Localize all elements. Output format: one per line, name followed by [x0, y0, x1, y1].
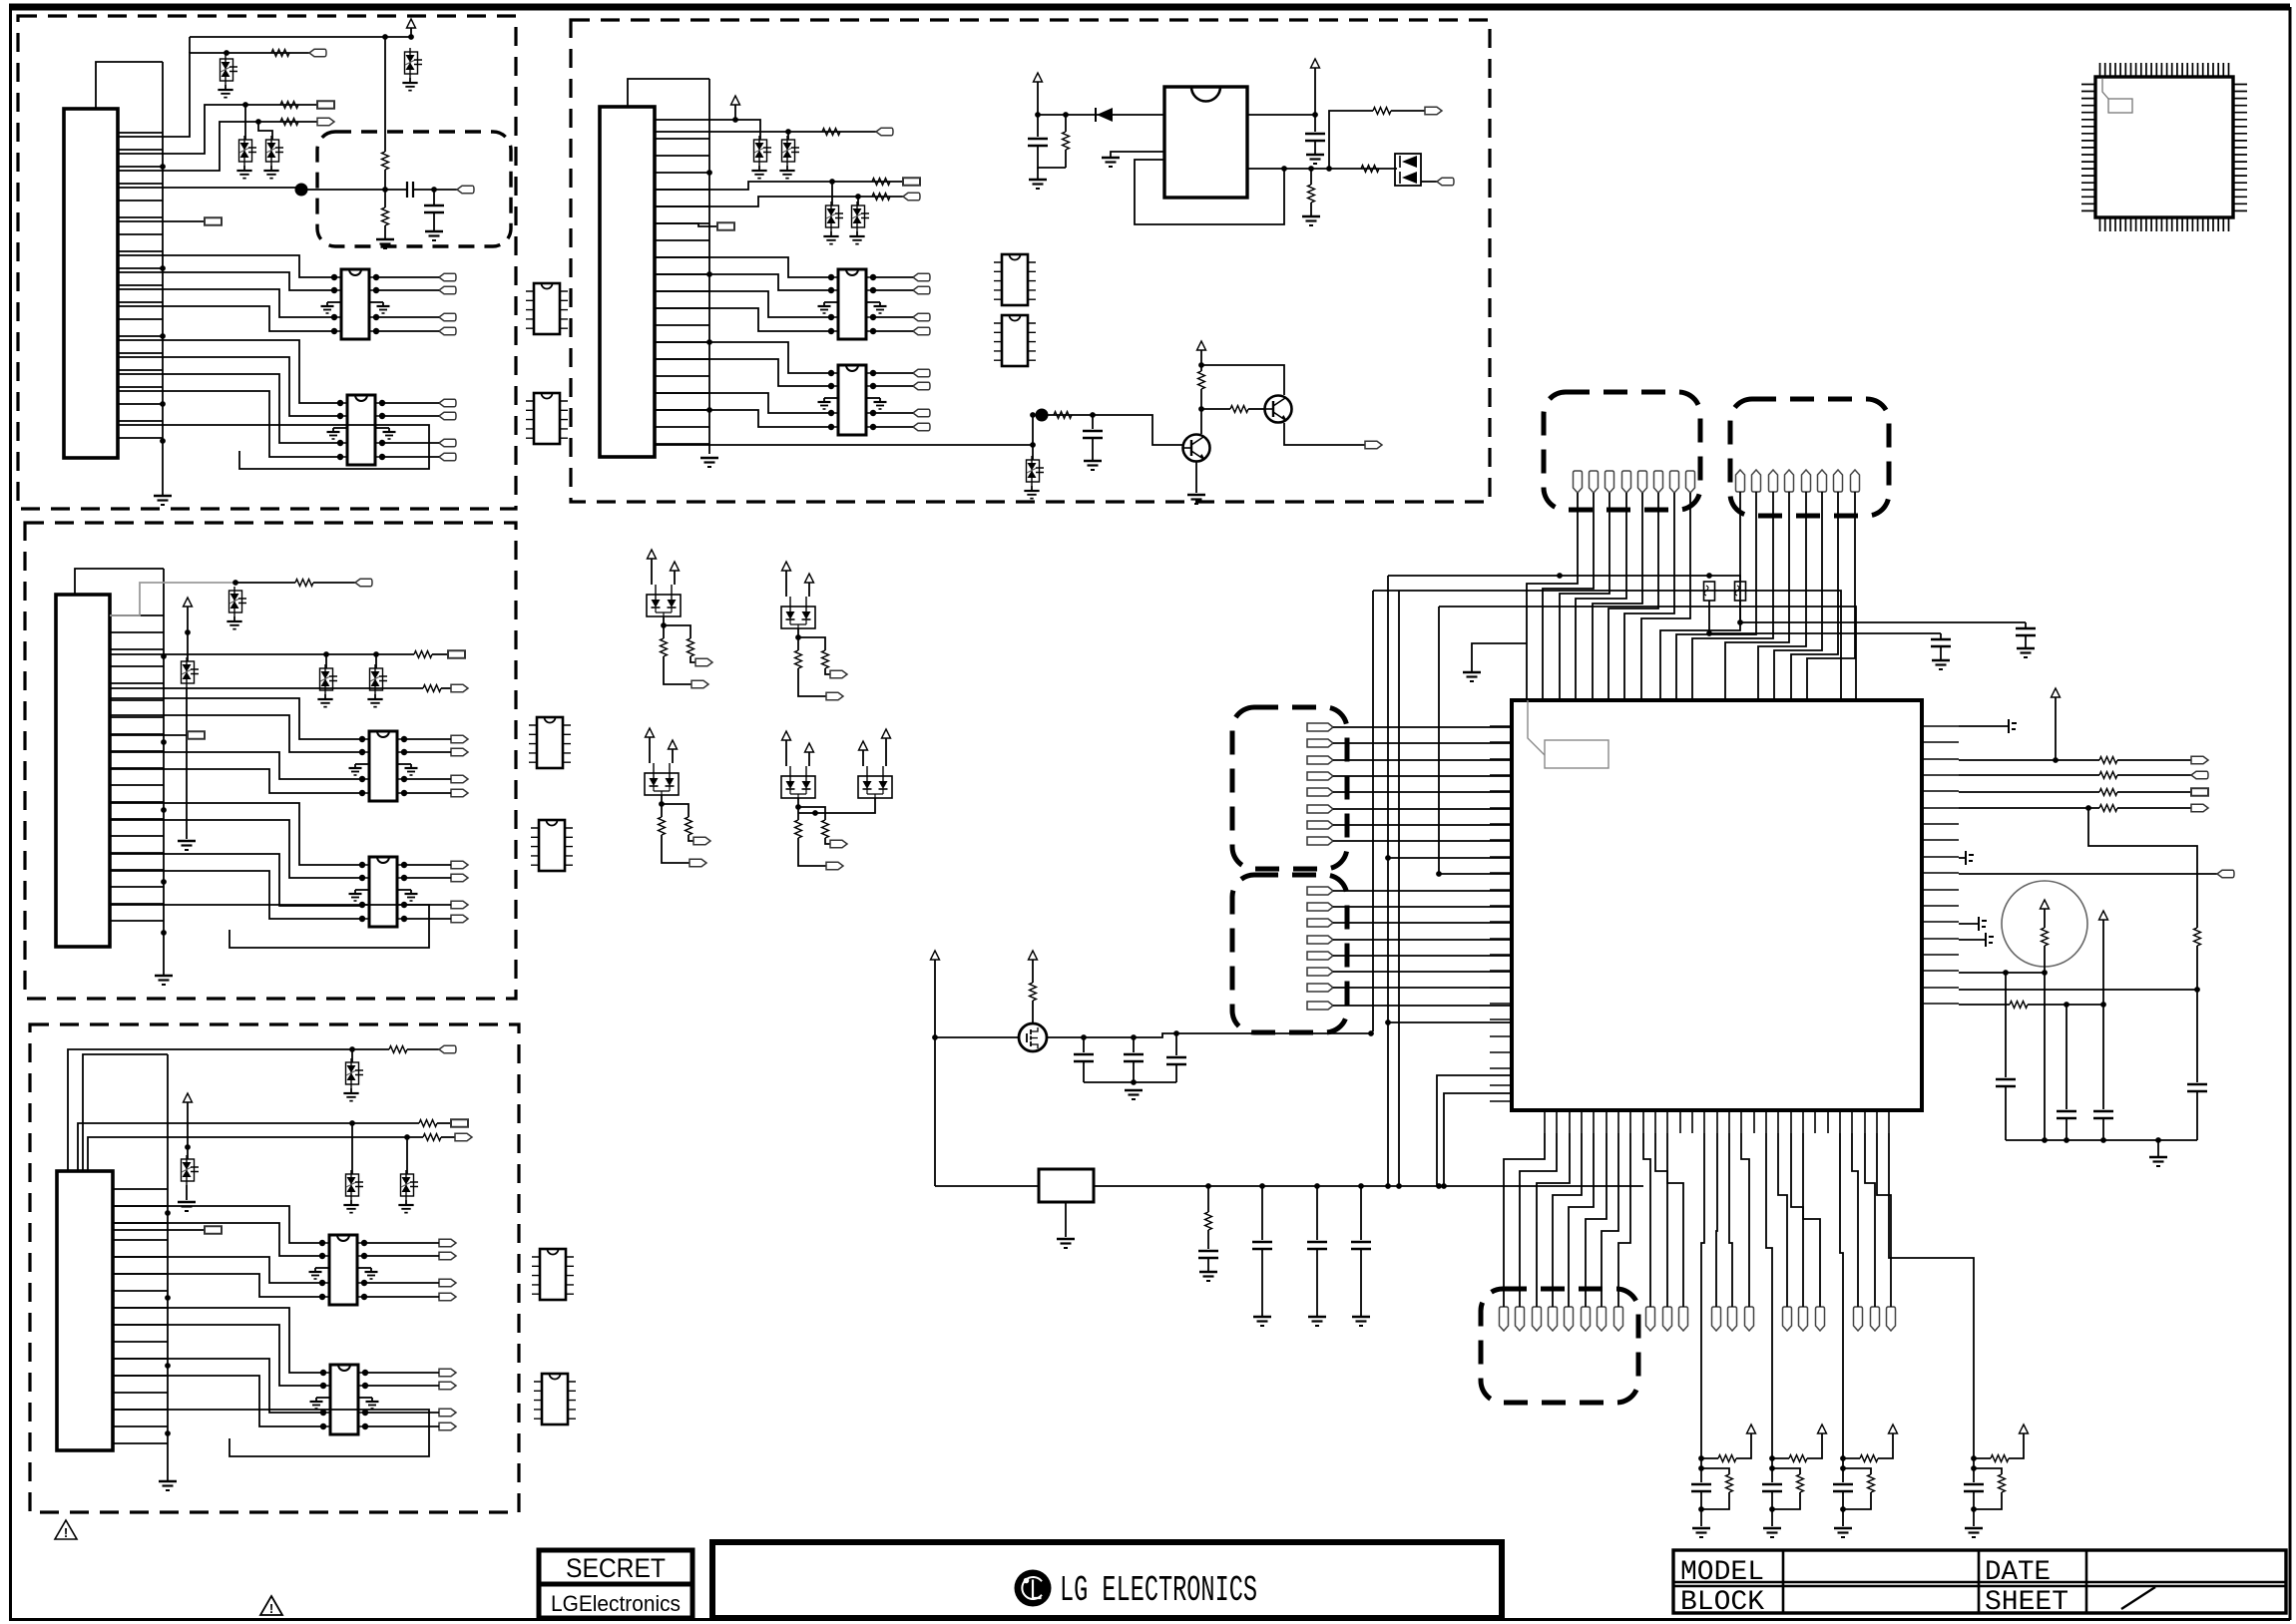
wire [118, 289, 334, 317]
junction [255, 119, 261, 125]
resistor R36 [1797, 1474, 1804, 1492]
resistor R11 [423, 1134, 441, 1141]
resistor R19 [1054, 412, 1072, 419]
wire [351, 1123, 353, 1174]
wire bus crystal [1094, 1185, 1643, 1187]
pin terminal J3-8 [1307, 837, 1333, 845]
wire [313, 582, 355, 584]
capacitor C10 [2093, 1111, 2113, 1118]
wire RC feed [1701, 1133, 1704, 1458]
optocoupler U3 output terminal 1 [451, 735, 468, 742]
junction [382, 187, 388, 193]
resistor R14 [872, 194, 890, 201]
junction [1063, 112, 1069, 118]
wire bottom fan [1791, 1133, 1803, 1307]
terminal T21 [2191, 756, 2208, 763]
resistor R18 [1373, 108, 1391, 115]
wire [2088, 808, 2197, 928]
wire [441, 687, 451, 689]
wire bus crystal [935, 1185, 1039, 1187]
wire [1037, 82, 1039, 115]
terminal T7 [448, 650, 465, 657]
wire RC feed [1840, 1133, 1843, 1458]
junction [1971, 1506, 1977, 1512]
diode network DG1 resistor B [688, 638, 694, 656]
resistor R5 [382, 207, 389, 225]
wire [404, 904, 451, 906]
wire row [1047, 1033, 1373, 1037]
ground right bus [2157, 1140, 2159, 1157]
optocoupler U6 decoupling grounds [310, 1398, 379, 1409]
wire top [190, 36, 385, 38]
header pin J5-3 [1533, 1307, 1542, 1331]
pin terminal J3-6 [1307, 805, 1333, 813]
junction [161, 653, 167, 659]
wire step above P1 [96, 62, 163, 109]
junction [160, 164, 166, 170]
wire J2 fan [1692, 492, 1773, 700]
diode network DG3 junction [659, 801, 665, 807]
wire [365, 1412, 439, 1414]
wire [825, 838, 830, 844]
optocoupler U2 output terminal 3 [439, 439, 456, 446]
diode network DG3 power arrow B [669, 740, 678, 749]
wire [376, 330, 439, 332]
wire gnd stub [1111, 152, 1164, 158]
optocoupler U2 output terminal 2 [439, 412, 456, 419]
wire [1388, 1021, 1512, 1023]
ground U17 [1102, 157, 1120, 160]
wire [187, 1102, 189, 1159]
wire bus P4 [655, 139, 709, 444]
junction [185, 629, 191, 635]
warning triangle 1 [55, 1520, 77, 1540]
optocoupler U3 [359, 731, 407, 801]
wire [118, 255, 334, 277]
pin terminal J3-7 [1307, 821, 1333, 829]
junction [160, 333, 166, 339]
wire [2066, 1118, 2067, 1140]
terminal T16 [903, 193, 920, 200]
wire [2044, 946, 2046, 973]
junction [1769, 1455, 1775, 1461]
wire [1065, 115, 1067, 132]
wire [437, 1122, 451, 1124]
wire [1333, 987, 1512, 989]
junction [161, 930, 167, 936]
diode network DG1 terminal A [695, 658, 712, 665]
resistor R16 [1308, 185, 1315, 203]
optocoupler U5 output terminal 4 [439, 1293, 456, 1300]
wire [2055, 697, 2057, 760]
capacitor C16 [1252, 1242, 1272, 1249]
terminal T11 [451, 1119, 468, 1126]
diode network DG4 common wire [797, 798, 799, 807]
wire [187, 607, 189, 661]
optocoupler U4 output terminal 1 [451, 861, 468, 868]
wire [2117, 807, 2191, 809]
resistor R30 [1205, 1212, 1212, 1230]
wire row [1959, 807, 2099, 809]
TVS diode D12 [401, 1174, 414, 1196]
junction [732, 117, 738, 123]
wire [2117, 774, 2191, 776]
header pin J5-2 [1516, 1307, 1525, 1331]
wire [1333, 922, 1512, 924]
connector P3 [57, 1171, 113, 1450]
wire [1843, 1457, 1860, 1459]
wire [798, 668, 826, 696]
junction [1090, 412, 1096, 418]
wire [1940, 633, 1942, 639]
TVS diode D14 [782, 140, 795, 162]
wire bottom fan [1741, 1133, 1749, 1307]
wire row [110, 687, 423, 689]
wire [384, 170, 386, 207]
wire bus P1 [118, 133, 163, 438]
junction [706, 339, 712, 345]
wire [873, 426, 913, 428]
junction [706, 407, 712, 413]
wire [1092, 415, 1094, 429]
resistor pack RP1 [1704, 582, 1715, 601]
wire row [68, 1049, 389, 1171]
wire [2028, 1004, 2103, 1006]
wire [364, 1255, 439, 1257]
optocoupler U2 [337, 395, 385, 465]
inner dashed box (filter detail) [317, 132, 511, 246]
pin terminal J4-4 [1307, 936, 1333, 944]
wire [1207, 1186, 1209, 1212]
wire bottom fan [1803, 1133, 1820, 1307]
wire [113, 1257, 322, 1283]
junction [1312, 112, 1318, 118]
header pin row 10 [1854, 1307, 1863, 1331]
ground RC3 [1834, 1527, 1852, 1530]
wire [1842, 1458, 1844, 1482]
ground P4 bus [700, 457, 718, 460]
junction [1358, 1183, 1364, 1189]
wire long loop [110, 905, 429, 948]
TVS diode D16 [852, 205, 865, 227]
terminal T22 [2191, 771, 2208, 778]
wire [1333, 939, 1512, 941]
pin terminal J4-6 [1307, 968, 1333, 976]
wire [1472, 643, 1527, 672]
power arrow V12 [1029, 951, 1038, 960]
wire bottom fan [1655, 1133, 1667, 1307]
wire [376, 289, 439, 291]
ground C4 [1314, 141, 1316, 155]
pin terminal J4-5 [1307, 952, 1333, 960]
junction [382, 34, 388, 40]
wire [244, 105, 246, 140]
wire [798, 807, 825, 820]
optocoupler U4 output terminal 2 [451, 874, 468, 881]
capacitor C6 [2016, 628, 2036, 635]
wire [2009, 1433, 2024, 1458]
junction [1205, 1183, 1211, 1189]
junction [1030, 412, 1036, 418]
wire L1 [1437, 1075, 1512, 1186]
wire bottom fan [1852, 1133, 1858, 1307]
wire [1391, 110, 1425, 112]
wire [1333, 808, 1512, 810]
header pin J1-5 [1638, 471, 1647, 493]
header pin J5-7 [1598, 1307, 1607, 1331]
wire [873, 289, 913, 291]
junction [161, 879, 167, 885]
wire [1973, 1491, 1975, 1526]
wire [1959, 923, 1979, 925]
terminal T3 [317, 118, 334, 125]
wire row [655, 197, 903, 206]
ground P3 bus [167, 1477, 169, 1481]
resistor R9 [389, 1046, 407, 1053]
wire [235, 582, 295, 584]
header pin row 3 [1679, 1307, 1688, 1331]
capacitor C14 [1166, 1057, 1186, 1064]
wire [655, 308, 831, 331]
wire bottom fan [1586, 1133, 1607, 1307]
terminal T14 [876, 128, 893, 135]
junction [242, 102, 248, 108]
wire net A [1388, 575, 1709, 577]
resistor R34 [1991, 1455, 2009, 1462]
dashed connector box J1 [1544, 392, 1700, 510]
wire [1333, 791, 1512, 793]
wire row [1959, 989, 2197, 991]
wire [1736, 1433, 1751, 1458]
diode network DG3 common wire [661, 795, 663, 804]
wire bus vertical [708, 79, 710, 454]
optocoupler U14 output terminal 2 [913, 382, 930, 389]
junction [408, 34, 414, 40]
wire [1843, 1492, 1871, 1509]
diode network DG3 resistor B [686, 817, 692, 835]
wire [1771, 1491, 1773, 1526]
resistor R26 [2194, 928, 2201, 946]
wire J2 fan [1758, 492, 1806, 700]
terminal T13 [205, 1226, 222, 1233]
resistor R31 [1718, 1455, 1736, 1462]
wire [1175, 1033, 1177, 1055]
wire row [1247, 114, 1315, 116]
resistor R27 [2042, 928, 2049, 946]
wire [2025, 622, 2027, 628]
optocoupler U5 output terminal 3 [439, 1279, 456, 1286]
wire [662, 835, 689, 863]
pin terminal J3-3 [1307, 756, 1333, 764]
wire [351, 1049, 353, 1062]
junction [2064, 1137, 2069, 1143]
junction [1698, 1506, 1704, 1512]
optocoupler U3 decoupling grounds [349, 764, 418, 775]
wire [1195, 462, 1197, 493]
IC U8 [526, 393, 568, 444]
junction [1326, 166, 1332, 172]
TVS diode D8 [370, 668, 383, 690]
terminal T5 [205, 217, 222, 224]
wire [798, 798, 875, 813]
terminal T1 [309, 49, 326, 56]
ground Q1 [1187, 494, 1205, 497]
wire [1314, 68, 1316, 115]
header pin J2-3 [1769, 470, 1778, 492]
junction [1706, 573, 1712, 579]
diode network DG2 terminal A [830, 670, 847, 677]
wire [118, 391, 340, 457]
junction [1081, 1034, 1087, 1040]
junction [1840, 1455, 1846, 1461]
TVS diode D9 [182, 1159, 195, 1181]
junction [1385, 1183, 1391, 1189]
wire [118, 340, 340, 403]
TVS diode D3 [266, 140, 279, 162]
ground C3 [1037, 168, 1039, 180]
wire [857, 197, 859, 205]
wire long loop [118, 425, 429, 469]
wire [934, 960, 936, 1186]
power arrow V8 [2052, 688, 2061, 697]
wire [787, 132, 789, 140]
wire cap common [1084, 1081, 1176, 1083]
wire [1065, 150, 1067, 168]
wire bundle v1 [1372, 591, 1374, 1031]
power arrow V2 [184, 598, 193, 607]
terminal T20 [1365, 441, 1382, 448]
optocoupler U1 output terminal 3 [439, 313, 456, 320]
terminal T24 [2191, 804, 2208, 811]
ground caps [1125, 1089, 1143, 1092]
warning triangle 2 [260, 1596, 282, 1616]
wire [2117, 759, 2191, 761]
junction [1198, 406, 1204, 412]
optocoupler U14 output terminal 1 [913, 369, 930, 376]
wire [1700, 1491, 1702, 1526]
capacitor C19 [1691, 1484, 1711, 1491]
ground C7 [1940, 646, 1942, 660]
junction [785, 129, 791, 135]
terminal T17 [717, 222, 734, 229]
wire [376, 276, 439, 278]
header pin J1-1 [1574, 471, 1583, 493]
title bar LG ELECTRONICS [712, 1542, 1502, 1618]
wire [1333, 1005, 1512, 1007]
wire bus vertical [162, 62, 164, 492]
wire [113, 1325, 323, 1386]
wire [113, 1376, 323, 1426]
wire [1439, 873, 1512, 875]
wire row long [1959, 873, 2217, 875]
wire bottom fan [1778, 1133, 1787, 1307]
connector P1 [64, 109, 118, 458]
termination cap x3 [1979, 917, 1987, 931]
diode network DG2 junction [795, 634, 801, 640]
wire [1973, 1458, 1975, 1482]
wire [432, 653, 448, 655]
power arrow V14 [1818, 1424, 1827, 1433]
wire [384, 37, 386, 152]
wire [2102, 920, 2104, 1005]
U19 right pins [1922, 726, 1959, 1004]
optocoupler U4 [359, 857, 407, 927]
power arrow V9 [2041, 900, 2050, 909]
wire [1772, 1457, 1789, 1459]
resistor R33 [1860, 1455, 1878, 1462]
wire [1201, 365, 1284, 395]
power arrow V13 [1747, 1424, 1756, 1433]
capacitor C11 [2187, 1084, 2207, 1091]
junction [1035, 112, 1041, 118]
TVS diode D19 [1027, 460, 1040, 482]
wire [735, 120, 760, 140]
termination cap x1 [2009, 719, 2017, 733]
wire [825, 668, 830, 674]
svg-text:MODEL: MODEL [1680, 1557, 1764, 1588]
wire RC feed [1889, 1133, 1974, 1458]
header pin J2-1 [1736, 470, 1745, 492]
header pin J1-6 [1654, 471, 1663, 493]
junction [1396, 1183, 1402, 1189]
ground R16 [1310, 203, 1312, 216]
optocoupler U1 decoupling grounds [321, 302, 390, 313]
wire [364, 1296, 439, 1298]
wire [873, 385, 913, 387]
junction [165, 1295, 171, 1301]
optocoupler U2 output terminal 1 [439, 399, 456, 406]
junction [165, 1210, 171, 1216]
resistor pack RP2 [1735, 582, 1746, 601]
resistor R20 [1198, 371, 1205, 389]
wire [2005, 1086, 2007, 1140]
junction [1971, 1455, 1977, 1461]
junction [160, 438, 166, 444]
wire bottom fan [1520, 1133, 1557, 1307]
ground RC2 [1763, 1527, 1781, 1530]
SECRET box [539, 1550, 692, 1618]
junction [165, 1363, 171, 1369]
junction [1385, 855, 1391, 861]
header pin row 9 [1816, 1307, 1825, 1331]
wire [110, 871, 362, 919]
optocoupler U4 decoupling grounds [349, 890, 418, 901]
junction [2155, 1137, 2161, 1143]
pin terminal J3-2 [1307, 739, 1333, 747]
wire bottom fan [1865, 1133, 1875, 1307]
wire [1333, 840, 1512, 842]
wire [404, 864, 451, 866]
header pin J1-2 [1590, 471, 1599, 493]
junction [932, 1034, 938, 1040]
wire row4 [118, 188, 407, 190]
svg-text:LG ELECTRONICS: LG ELECTRONICS [1060, 1570, 1257, 1611]
wire [1701, 1468, 1729, 1474]
diode network DG3 [645, 763, 679, 795]
wire [873, 276, 913, 278]
header pin row 11 [1871, 1307, 1880, 1331]
wire J2 fan [1791, 492, 1838, 700]
dashed block boundary (key input block 2) [25, 523, 516, 999]
header pin J5-6 [1582, 1307, 1591, 1331]
junction [1198, 362, 1204, 368]
capacitor C18 [1351, 1242, 1371, 1249]
resistor R29 [1030, 983, 1037, 1001]
optocoupler U14 decoupling grounds [818, 398, 887, 409]
optocoupler U6 output terminal 3 [439, 1409, 456, 1416]
junction [1436, 1183, 1442, 1189]
junction [404, 1134, 410, 1140]
